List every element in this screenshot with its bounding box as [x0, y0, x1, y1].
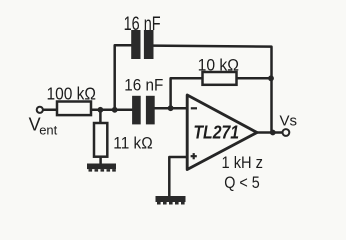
node A junction dot 2 — [112, 107, 118, 113]
ground (op-amp non-inverting input) — [156, 196, 186, 205]
op-amp inverting input minus sign — [191, 107, 197, 109]
wire C1 right to right rail — [154, 46, 272, 133]
svg-text:11 kΩ: 11 kΩ — [113, 133, 152, 152]
wire C2 to node B to op-amp inverting input — [155, 107, 188, 110]
output terminal circle Vs — [283, 129, 290, 136]
svg-text:10 kΩ: 10 kΩ — [198, 55, 239, 74]
resistor R1 100 kOhm — [57, 102, 91, 116]
capacitor C1 16 nF — [131, 30, 153, 59]
svg-text:100 kΩ: 100 kΩ — [47, 83, 97, 103]
svg-text:16 nF: 16 nF — [124, 14, 161, 35]
junction dot R3/right rail — [268, 75, 274, 81]
svg-text:Vs: Vs — [280, 112, 298, 129]
input terminal circle — [37, 107, 43, 113]
svg-text:16 nF: 16 nF — [124, 77, 163, 95]
ground (R2) — [87, 164, 116, 172]
wire R3 right to right rail — [237, 77, 272, 80]
node B junction dot — [168, 105, 174, 111]
svg-text:1 kH z: 1 kH z — [222, 153, 264, 172]
wire input terminal to R1 — [44, 109, 58, 112]
wire node A down to R2 — [99, 110, 102, 123]
op-amp U1 TL271 — [187, 95, 257, 170]
wire node B up to R3 — [171, 78, 203, 108]
wire R1 to C2 (node A run) — [91, 109, 132, 112]
wire riser node A up to C1 — [115, 45, 132, 110]
junction dot output — [270, 130, 276, 136]
resistor R3 10 kOhm — [203, 72, 237, 85]
capacitor C2 16 nF — [132, 96, 155, 125]
svg-text:Q < 5: Q < 5 — [224, 173, 260, 192]
wire op-amp non-inverting input to ground — [169, 157, 187, 196]
svg-text:ent: ent — [39, 122, 57, 137]
resistor R2 11 kOhm — [94, 123, 107, 157]
svg-text:TL271: TL271 — [193, 123, 239, 143]
wire R2 to ground — [99, 157, 102, 164]
wire op-amp output to terminal Vs — [256, 131, 283, 134]
op-amp non-inverting input plus sign — [191, 153, 197, 159]
node A junction dot 1 — [98, 107, 104, 113]
